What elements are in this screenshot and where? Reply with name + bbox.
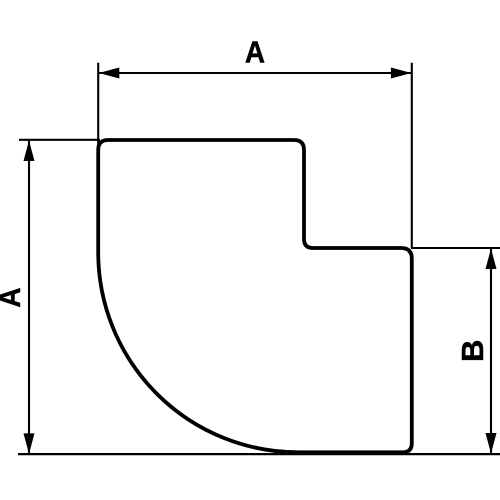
arrowhead bottom of B dimension [486, 433, 497, 454]
arrowhead right of top A dimension [391, 68, 412, 79]
arrowhead top of left A dimension [24, 141, 35, 162]
svg-text:A: A [245, 35, 265, 70]
dimension line B (right) [490, 249, 492, 454]
baseline [18, 453, 500, 455]
extension line top-right [411, 63, 413, 248]
dimension line A (top) [99, 72, 412, 74]
extension line top-left [97, 63, 99, 146]
arrowhead top of B dimension [486, 249, 497, 270]
arrowhead bottom of left A dimension [24, 433, 35, 454]
part outline [98, 140, 412, 452]
extension line B-top [411, 247, 500, 249]
svg-text:A: A [0, 287, 27, 307]
dimension line A (left) [28, 141, 30, 454]
extension line left-top [19, 139, 100, 141]
arrowhead left of top A dimension [99, 68, 120, 79]
svg-text:B: B [455, 340, 490, 362]
